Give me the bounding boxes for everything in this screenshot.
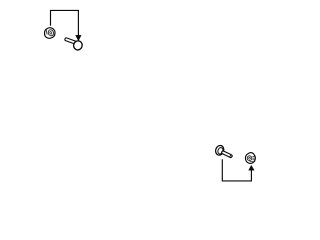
wire: leader polyline group 2 — [222, 159, 251, 181]
screw S1 (rivet-style screw, shaft up-left, head lower-right) — [64, 38, 83, 52]
arrowhead A1 (points down at screw S1) — [76, 35, 82, 41]
arrowhead A2 (points up at nut N2) — [249, 165, 255, 170]
wire: leader polyline group 1 — [51, 10, 79, 36]
nut N2 (serrated flange nut, 3/4 view, bottom-right group) — [245, 153, 255, 164]
nut N1 (hex nut, 3/4 view, top-left group) — [45, 28, 56, 39]
screw S2 (pan-head screw, head upper-left, shaft down-right, bottom-right group) — [214, 144, 232, 158]
